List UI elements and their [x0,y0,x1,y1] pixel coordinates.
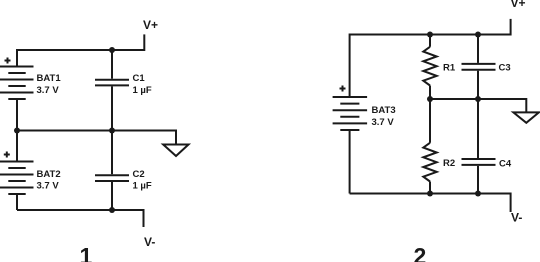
wire ground drop circuit 2 [525,98,527,112]
ground circuit 1 [163,145,188,157]
node junction BAT mid rail [14,128,20,134]
node junction C3 top rail [475,32,481,38]
wire ground drop circuit 1 [175,130,177,145]
svg-text:BAT3: BAT3 [372,105,396,116]
svg-text:V+: V+ [143,18,158,32]
resistor R1 [423,47,436,86]
svg-text:V-: V- [511,211,522,225]
wire BAT3 to bottom rail [349,130,351,194]
svg-text:2: 2 [414,243,427,262]
wire top rail circuit 1 [17,49,144,51]
wire mid rail circuit 1 [17,130,176,132]
wire R1 bottom lead [429,86,431,100]
wire BAT1 to mid rail [16,99,18,131]
wire V- drop circuit 1 [143,209,145,227]
battery BAT3 [333,97,368,130]
wire C4 top lead [477,99,479,158]
wire C2 top lead [111,131,113,175]
svg-text:BAT2: BAT2 [37,169,61,180]
battery BAT2 [0,162,34,195]
svg-text:3.7 V: 3.7 V [372,117,395,128]
BAT3 plus polarity mark [340,86,346,92]
svg-text:C1: C1 [133,73,146,84]
node junction C1 C2 mid rail [109,128,115,134]
wire V+ riser circuit 2 [510,19,512,36]
capacitor C1 [95,80,129,86]
svg-text:1 µF: 1 µF [133,85,152,96]
wire mid rail circuit 2 [430,98,526,100]
wire C2 bottom lead [111,182,113,210]
wire BAT2 to bottom rail [16,194,18,210]
svg-text:V-: V- [144,235,155,249]
ground circuit 2 [513,112,539,122]
svg-text:V+: V+ [511,0,526,10]
svg-text:C2: C2 [133,169,145,180]
capacitor C2 [95,175,129,181]
svg-text:R1: R1 [443,62,456,73]
wire C1 bottom lead [111,86,113,130]
svg-text:BAT1: BAT1 [37,73,62,84]
svg-text:C3: C3 [499,62,511,73]
wire R2 bottom lead [429,182,431,194]
node junction R2 bottom rail [427,191,433,197]
svg-text:C4: C4 [499,158,512,169]
battery BAT1 [0,67,34,100]
wire BAT1 top lead [16,49,18,67]
resistor R2 [423,143,436,182]
svg-text:1: 1 [80,243,93,262]
svg-text:R2: R2 [443,158,455,169]
node junction R1 top rail [427,32,433,38]
wire C3 top lead [477,35,479,63]
svg-text:1 µF: 1 µF [133,181,152,192]
node junction R1 R2 mid rail [427,96,433,102]
BAT1 plus polarity mark [5,58,11,64]
svg-text:3.7 V: 3.7 V [37,85,60,96]
wire R2 top lead [429,99,431,143]
wire C1 top lead [111,50,113,79]
node junction C2 bottom rail [109,207,115,213]
wire BAT2 top lead [16,130,18,162]
wire R1 top lead [429,35,431,47]
wire C3 bottom lead [477,71,479,99]
wire V+ riser circuit 1 [143,34,145,51]
wire top rail circuit 2 [350,34,511,36]
wire BAT3 top lead [349,34,351,98]
node junction C4 bottom rail [475,191,481,197]
capacitor C4 [462,159,496,165]
BAT2 plus polarity mark [4,152,10,158]
capacitor C3 [462,64,496,70]
wire bottom rail circuit 2 [350,193,511,195]
wire V- drop circuit 2 [510,193,512,213]
node junction C1 top rail [109,47,115,53]
svg-text:3.7 V: 3.7 V [37,181,60,192]
wire C4 bottom lead [477,166,479,194]
wire bottom rail circuit 1 [17,209,144,211]
node junction C3 C4 mid rail [475,96,481,102]
